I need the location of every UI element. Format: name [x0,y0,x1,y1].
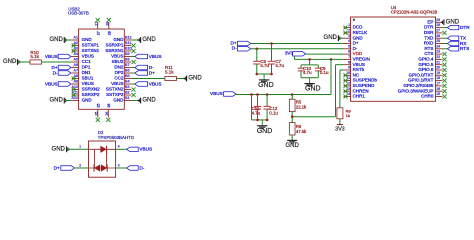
wire drop to C10 C9 rail [301,59,318,65]
net flag RX [443,41,468,46]
svg-text:CP2102N-A02-GQFN28: CP2102N-A02-GQFN28 [391,9,438,14]
svg-text:5.1k: 5.1k [30,54,39,59]
net flag D- at pin B7 [131,65,154,70]
ESD diode array D2 TPSP0503BAHTG body [89,130,135,177]
svg-text:26: 26 [105,112,109,116]
net flag D- at pin A7 [53,70,72,75]
svg-text:DP1: DP1 [82,65,91,70]
net flag VBUS at pin A9 [45,81,72,86]
ground GND left of R10 [3,59,20,65]
svg-text:B6: B6 [125,69,130,73]
ground GND at pin B1 [131,98,156,104]
junction on D- wire for C6 [255,48,258,51]
wire VREGIN riser to VBUS rail [330,59,332,94]
svg-text:A7: A7 [73,69,78,73]
svg-text:SSRXP1: SSRXP1 [106,43,124,48]
svg-text:20: 20 [436,66,440,70]
svg-text:D-: D- [53,70,58,75]
ground GND below C6 C7 [258,74,274,89]
svg-text:VREGIN: VREGIN [353,57,370,62]
svg-text:CHREN: CHREN [353,88,369,93]
svg-text:28: 28 [436,23,440,27]
net flag VBUS at pin B4 [131,81,161,86]
ground GND at pin B12 [131,37,156,43]
IC U4 CP2102N-A02-GQFN28 body [351,5,438,101]
wire C6 C7 ground rail [255,73,272,76]
svg-text:DN2: DN2 [114,65,123,70]
svg-text:GPIO.2/RS485: GPIO.2/RS485 [403,83,434,88]
wire U4 VBUS pin riser to divider [292,65,343,117]
net flag VBUS at pin B9 [131,54,161,59]
no-connect X pins A10 A11 [72,87,76,97]
svg-text:0.1u: 0.1u [320,70,329,75]
wire R10 to pin A5 CC1 [42,61,72,63]
net flag D- mid [232,46,251,51]
svg-text:DN1: DN1 [82,70,91,75]
wire R11 to GND [176,78,186,80]
resistor R11 5.1k [165,65,177,81]
svg-text:SSTXN2: SSTXN2 [106,87,124,92]
no-connect X on shell pins bottom [96,118,111,122]
wire C10 C9 ground rail [301,77,318,79]
svg-text:VBUS: VBUS [139,147,152,152]
svg-text:B5: B5 [125,74,130,78]
ground GND at U4 GND pin [324,35,344,41]
capacitor C11 4.7u [252,95,262,120]
svg-text:SSTXN1: SSTXN1 [82,48,100,53]
svg-text:25: 25 [436,39,440,43]
svg-text:4.7u: 4.7u [303,70,312,75]
net flag DTR [443,25,471,30]
svg-text:RSTb: RSTb [353,67,365,72]
svg-text:28: 28 [107,31,111,35]
svg-text:VBUS: VBUS [353,62,365,67]
svg-text:SSTXP2: SSTXP2 [106,92,124,97]
svg-text:19: 19 [436,71,440,75]
no-connect X pins B3 B2 [131,87,135,97]
svg-text:DTR: DTR [460,25,470,30]
svg-text:D-: D- [232,46,237,51]
svg-text:3V3: 3V3 [335,127,345,133]
svg-text:VBUS: VBUS [82,54,94,59]
svg-text:D-: D- [353,46,358,51]
no-connect X U4 CTS and GPIO pins [442,52,446,99]
wire U4 RSTb to R9 [340,70,344,108]
svg-text:SBU1: SBU1 [82,76,94,81]
svg-text:47.5k: 47.5k [296,129,307,134]
USB2 shell pins 27 28 top [95,22,112,36]
svg-text:VBUS: VBUS [111,54,123,59]
svg-text:22: 22 [436,55,440,59]
svg-text:DCD: DCD [353,25,363,30]
svg-text:B7: B7 [125,63,130,67]
svg-text:RXD: RXD [424,41,434,46]
no-connect X pins A2 A3 [72,43,76,53]
svg-text:25: 25 [96,104,100,108]
wire GND to R10 [18,61,31,63]
resistor R10 5.1k [30,50,42,64]
svg-text:GND: GND [305,86,321,93]
svg-text:9: 9 [348,66,350,70]
svg-text:D+: D+ [353,41,359,46]
svg-text:CC1: CC1 [82,59,91,64]
svg-text:RX: RX [460,41,467,46]
svg-text:EP: EP [427,19,433,24]
capacitor C7 4.7u [268,44,285,75]
ground GND at D2 pin 1 [52,146,89,152]
net flag TX [443,36,467,41]
svg-text:4.7u: 4.7u [275,63,284,68]
svg-text:18: 18 [436,76,440,80]
wire A4 to VBUS flag [70,56,73,58]
svg-text:4: 4 [118,145,120,149]
svg-text:4.7u: 4.7u [252,110,261,115]
svg-text:GND: GND [446,19,460,25]
USB2 shell pins 25 26 bottom [95,104,111,118]
svg-text:29: 29 [436,18,440,22]
svg-text:D-: D- [139,165,144,170]
no-connect X U4 pins DCD RI/CLK [343,26,347,35]
svg-text:17: 17 [436,82,440,86]
D2 pin numbers [79,145,119,168]
wire R9 to 3V3 [339,119,341,125]
svg-text:A5: A5 [73,58,78,62]
svg-text:VBUS: VBUS [149,81,162,86]
svg-text:B8: B8 [125,58,130,62]
svg-text:CC2: CC2 [114,76,123,81]
ground GND at pin A1 [49,37,66,43]
ground GND right of R11 [184,76,202,82]
svg-text:8: 8 [348,60,350,64]
svg-text:SSRXP2: SSRXP2 [82,92,100,97]
svg-text:1: 1 [79,145,81,149]
svg-text:B10: B10 [125,47,132,51]
svg-text:GND: GND [188,76,202,82]
svg-text:3: 3 [118,163,120,167]
no-connect X U4 DSR [442,31,446,35]
svg-text:24: 24 [436,44,440,48]
svg-text:DSR: DSR [424,30,434,35]
svg-text:27: 27 [95,22,99,26]
svg-text:VBUS: VBUS [45,54,58,59]
svg-text:GND: GND [113,98,124,103]
no-connect X pin B8 [131,60,135,64]
D2 internal rails and diodes [89,146,116,172]
svg-text:D+: D+ [51,65,57,70]
svg-text:GND: GND [324,35,338,41]
junction VBUS rail C11 drop [256,93,259,96]
svg-text:CHR0: CHR0 [421,94,434,99]
svg-text:D-: D- [149,65,154,70]
svg-text:B9: B9 [125,52,130,56]
svg-text:15: 15 [436,92,440,96]
svg-text:GND: GND [258,82,274,89]
svg-text:RI/CLK: RI/CLK [353,30,368,35]
svg-text:7: 7 [348,55,350,59]
capacitor C10 4.7u [298,65,312,78]
net flag D- at D2 pin 3 [116,165,145,170]
svg-text:GND: GND [142,98,156,104]
svg-text:DP2: DP2 [115,70,124,75]
capacitor C12 0.1u [264,95,279,120]
svg-text:GPIO.6: GPIO.6 [418,67,434,72]
svg-text:RTS: RTS [460,46,469,51]
net flag VBUS at pin A4 [45,54,71,59]
svg-text:TX: TX [460,36,467,41]
resistor R6 47.5k [289,123,307,135]
svg-text:B3: B3 [125,85,130,89]
svg-text:SUSPENDb: SUSPENDb [353,78,378,83]
wire VBUS rail [236,94,331,96]
svg-text:A6: A6 [73,63,78,67]
svg-text:GND: GND [257,128,273,135]
U4 left pins with names and numbers [344,23,378,98]
svg-text:26: 26 [436,34,440,38]
wire D- flag to U4 D- pin [251,48,344,50]
svg-text:GND: GND [82,98,93,103]
svg-text:1k: 1k [346,113,350,118]
svg-text:1: 1 [348,23,350,27]
svg-text:SBU2: SBU2 [112,59,124,64]
junction on D+ wire for C7 [270,42,273,45]
svg-text:DTR: DTR [424,25,434,30]
U4 right pins with names and numbers [398,18,443,99]
capacitor C9 0.1u [315,65,329,78]
no-connect X pins B11 B10 [131,43,135,53]
svg-text:B12: B12 [125,36,132,40]
no-connect X U4 pins NC SUSPENDb SUSPEND CHREN CHR1 [343,73,347,98]
svg-text:GND: GND [52,146,66,152]
svg-text:27: 27 [436,29,440,33]
ground GND below R6 [286,140,300,149]
svg-text:USB-307B: USB-307B [68,11,89,16]
svg-text:VBUS: VBUS [82,81,94,86]
svg-text:SUSPEND: SUSPEND [353,83,376,88]
svg-text:B4: B4 [125,80,130,84]
USB2 left pins A1-A12 with names and numbers [71,36,100,103]
wire 3V3 flag to U4 VDD pin [295,54,344,59]
svg-text:GND: GND [286,143,300,149]
USB2 right pins B12-B1 with names and numbers [105,36,131,103]
svg-text:3: 3 [348,34,350,38]
svg-text:GND: GND [3,59,17,65]
svg-text:SSRXN1: SSRXN1 [105,48,124,53]
resistor R9 1k [337,108,352,119]
svg-text:GND: GND [142,37,156,43]
svg-text:A1: A1 [73,36,78,40]
svg-text:GND: GND [49,37,63,43]
net flag VBUS at D2 pin 4 [116,147,153,152]
ground GND at U4 EP pin [441,19,459,25]
svg-text:5: 5 [348,44,350,48]
net flag D+ mid [230,40,250,45]
svg-text:SSRXN2: SSRXN2 [82,87,101,92]
svg-text:GPIO.0/TXT: GPIO.0/TXT [409,72,434,77]
svg-text:6: 6 [348,50,350,54]
svg-text:GND: GND [353,35,364,40]
svg-text:GND: GND [49,98,63,104]
ground GND below C10 C9 [304,78,320,93]
svg-text:26: 26 [107,104,111,108]
svg-text:GND: GND [113,37,124,42]
wire D+ flag to U4 D+ pin [251,43,344,45]
svg-text:3V3: 3V3 [285,51,294,56]
svg-text:0.1u: 0.1u [269,110,278,115]
svg-text:CHR1: CHR1 [353,94,366,99]
no-connect X on shell pins top [96,18,111,22]
ground GND below C11 C12 [257,120,273,135]
wire B5 CC2 to R11 [131,78,165,80]
junction VREGIN riser [330,58,333,61]
svg-text:D+: D+ [149,70,155,75]
svg-text:VDD: VDD [353,51,363,56]
svg-text:TPSP0503BAHTG: TPSP0503BAHTG [98,135,135,140]
svg-text:25: 25 [95,112,99,116]
ground GND at pin A12 [49,98,71,104]
svg-text:VBUS: VBUS [210,91,223,96]
svg-text:B2: B2 [125,91,130,95]
svg-text:RTS: RTS [424,46,433,51]
svg-text:VBUS: VBUS [111,81,123,86]
net flag D+ at D2 pin 2 [54,165,89,170]
svg-text:NC: NC [353,72,360,77]
wire VREGIN net [295,58,344,60]
power flag 3V3 below R9 [335,125,345,133]
net flag 3V3 at U4 VDD [285,51,306,56]
junction VREGIN to C10 C9 drop [308,58,311,61]
svg-text:23: 23 [436,50,440,54]
svg-text:28: 28 [106,22,110,26]
junction VBUS rail left drop [250,93,253,96]
junction VBUS rail R5 [291,93,294,96]
svg-text:B11: B11 [125,41,131,45]
svg-text:GPIO.3/WAKEUP: GPIO.3/WAKEUP [398,88,434,93]
net flag D+ at pin B6 [131,70,155,75]
wire C11 C12 ground rail [252,119,269,122]
svg-text:CTS: CTS [424,51,433,56]
svg-text:GPIO.1/RXT: GPIO.1/RXT [408,78,434,83]
svg-text:2: 2 [348,29,350,33]
capacitor C6 4.7u [253,49,269,74]
wire R6 to GND [291,135,293,140]
svg-text:2: 2 [79,163,81,167]
svg-text:16: 16 [436,87,440,91]
net flag VBUS mid [210,91,236,96]
connector USB2 USB-307B body [68,7,124,110]
resistor R5 22.1k [289,95,307,112]
svg-text:VBUS: VBUS [45,81,58,86]
svg-text:21: 21 [436,60,440,64]
junction VBUS rail C12 drop [266,93,269,96]
wire A1 to GND [64,39,71,41]
wire left drop to ground rail [251,95,253,120]
svg-text:VBUS: VBUS [149,54,162,59]
net flag RTS [443,46,470,51]
svg-text:D+: D+ [230,40,236,45]
svg-text:27: 27 [96,31,100,35]
svg-text:D+: D+ [54,165,60,170]
svg-text:5.1k: 5.1k [165,70,174,75]
wire R5 to R6 junction [291,112,293,123]
junction divider midpoint [291,115,294,118]
svg-text:TXD: TXD [424,35,434,40]
svg-text:GND: GND [82,37,93,42]
svg-text:22.1k: 22.1k [296,104,307,109]
svg-text:GPIO.4: GPIO.4 [418,57,434,62]
net flag D+ at pin A6 [51,65,71,70]
svg-text:GPIO.5: GPIO.5 [418,62,434,67]
no-connect X pin A8 [72,76,76,80]
svg-text:4: 4 [348,39,350,43]
svg-text:SSTXP1: SSTXP1 [82,43,100,48]
svg-text:B1: B1 [125,96,130,100]
